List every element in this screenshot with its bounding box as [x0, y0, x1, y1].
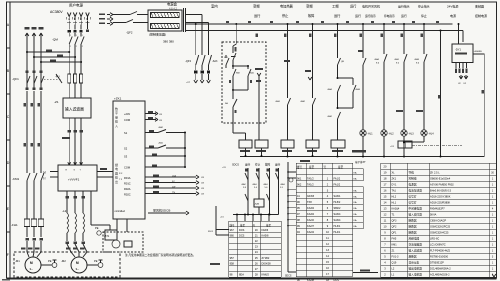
svg-text:停止: 停止 — [255, 162, 261, 166]
svg-text:ZK 2.5 L: ZK 2.5 L — [430, 171, 440, 175]
svg-text:RXM4LB2P7: RXM4LB2P7 — [430, 207, 445, 211]
wire S3 COM common — [145, 132, 186, 169]
svg-text:电机开关风机: 电机开关风机 — [362, 3, 380, 8]
power supply DY1 — [452, 23, 473, 63]
input filter Z1 — [54, 98, 91, 118]
thermal overload FH1 — [11, 184, 44, 241]
svg-text:KA5/8: KA5/8 — [262, 233, 270, 237]
svg-text:24V电源: 24V电源 — [447, 3, 458, 8]
svg-text:2: 2 — [82, 46, 83, 48]
svg-text:-SA3: -SA3 — [212, 60, 218, 63]
svg-text:C65N-C6A/2P: C65N-C6A/2P — [430, 219, 446, 223]
lamp branch HL1 — [358, 23, 366, 130]
svg-text:TN: TN — [172, 192, 175, 194]
field equipment dashed enclosure — [14, 252, 120, 277]
svg-text:SDCS: SDCS — [232, 163, 239, 166]
wire filter to inverter — [62, 118, 83, 165]
svg-text:运行: 运行 — [355, 13, 361, 18]
lamp branch HL2 — [374, 23, 387, 130]
svg-text:2: 2 — [70, 46, 71, 48]
svg-text:AD16-22G/Y380K: AD16-22G/Y380K — [430, 195, 451, 199]
terminal designation cells right of table — [353, 160, 367, 229]
svg-text:M: M — [30, 261, 33, 265]
inverter comm terminals to controller — [97, 168, 113, 177]
svg-text:出: 出 — [115, 179, 118, 184]
svg-text:-KA2: -KA2 — [300, 100, 306, 103]
svg-text:-DY1: -DY1 — [455, 48, 461, 52]
bus wire number labels — [226, 21, 439, 37]
svg-text:号: 号 — [323, 165, 326, 169]
wire control bus L2 — [186, 31, 464, 43]
ground PE motor M1 — [41, 259, 57, 267]
svg-text:输出电抗器: 输出电抗器 — [409, 267, 423, 271]
relay contact box KA6 — [254, 199, 264, 215]
svg-text:QF2: QF2 — [392, 226, 397, 229]
svg-text:FA1/2: FA1/2 — [334, 182, 341, 186]
svg-text:+ZK1: +ZK1 — [114, 97, 122, 101]
selector switch SA3 — [212, 55, 229, 68]
terminal block row top right — [390, 141, 462, 157]
svg-text:PE: PE — [95, 226, 99, 230]
svg-text:967: 967 — [230, 228, 235, 232]
breaker QF1 — [12, 71, 62, 90]
svg-text:SA3/4: SA3/4 — [334, 218, 342, 222]
zone letter A — [7, 23, 11, 48]
contactor coil KM1 — [331, 140, 345, 158]
svg-text:端子排XT: 端子排XT — [355, 160, 366, 164]
svg-text:-M1: -M1 — [15, 259, 20, 263]
svg-text:-KA3: -KA3 — [355, 88, 361, 91]
svg-text:LC1-D09M7C: LC1-D09M7C — [430, 243, 446, 247]
incoming arrows L1 L2 L3 sheet ref — [99, 13, 113, 26]
svg-text:KA2/4: KA2/4 — [307, 230, 315, 234]
svg-text:51K1: 51K1 — [208, 231, 214, 233]
relay coil KA1 — [233, 120, 252, 157]
relay coil KA4 — [306, 140, 319, 157]
svg-text:+XT: +XT — [186, 82, 191, 84]
svg-text:接至: 接至 — [240, 223, 246, 227]
power supply outputs 24V — [455, 63, 468, 86]
indicator lamp HL2 — [381, 130, 394, 158]
svg-text:TA1: TA1 — [392, 190, 397, 193]
svg-text:-QF2: -QF2 — [126, 31, 133, 35]
svg-text:-FU: -FU — [55, 75, 60, 79]
svg-text:热继电器: 热继电器 — [409, 237, 420, 241]
svg-text:停电指示: 停电指示 — [384, 14, 395, 18]
svg-text:HL3/1: HL3/1 — [334, 224, 341, 228]
svg-text:KM1: KM1 — [392, 244, 398, 247]
svg-text:ZY1B2: ZY1B2 — [262, 256, 270, 260]
svg-text:OSMC32N4C25: OSMC32N4C25 — [430, 231, 449, 235]
svg-text:ASY06 FA/B50 P902: ASY06 FA/B50 P902 — [430, 183, 454, 187]
relay coil KA2 — [255, 140, 268, 157]
svg-text:FH5: FH5 — [392, 238, 397, 241]
svg-text:-HL3: -HL3 — [408, 133, 414, 136]
svg-text:R01C: R01C — [124, 182, 131, 186]
svg-text:[-]: [-] — [43, 176, 46, 180]
svg-text:工频: 工频 — [332, 3, 339, 8]
svg-text:DCL480/W009A-2: DCL480/W009A-2 — [430, 267, 451, 271]
svg-text:958: 958 — [230, 261, 235, 265]
svg-text:FC: FC — [172, 181, 175, 183]
wire collector to terminal table — [220, 214, 279, 222]
svg-text:KA2/7: KA2/7 — [307, 224, 315, 228]
svg-text:运行: 运行 — [350, 3, 357, 8]
svg-text:-KA1: -KA1 — [394, 58, 400, 61]
interlock contact branch c — [263, 168, 270, 215]
wire panel feed from bus — [233, 23, 237, 53]
svg-text:+VVVF1: +VVVF1 — [68, 178, 80, 182]
relay output wires R01 R02 — [145, 174, 205, 195]
svg-text:R02A: R02A — [124, 187, 131, 191]
svg-text:DCS: DCS — [239, 233, 245, 237]
relay coil KA3 — [281, 140, 294, 158]
svg-text:KA2/2: KA2/2 — [307, 218, 315, 222]
inverter DC bus terminals — [43, 170, 58, 180]
wire links from QM to risers — [26, 38, 82, 90]
svg-text:入: 入 — [115, 124, 118, 128]
ground PE terminal block — [95, 226, 117, 240]
zone letter B — [7, 69, 11, 94]
svg-text:controlled: controlled — [115, 210, 126, 213]
svg-text:AD16-22S/R380K: AD16-22S/R380K — [430, 201, 451, 205]
svg-text:SDCS: SDCS — [285, 276, 292, 278]
svg-text:控制电源: 控制电源 — [475, 13, 487, 18]
indicator lamp HL3 — [401, 130, 414, 158]
svg-text:-L2: -L2 — [62, 209, 67, 213]
control transformer T1 — [148, 1, 186, 43]
svg-text:S1: S1 — [124, 131, 128, 135]
breaker QF2 — [113, 12, 148, 35]
svg-text:线号: 线号 — [230, 223, 236, 227]
svg-text:DT930E12P: DT930E12P — [430, 261, 444, 265]
contactor branch KM1 with interlocks — [327, 23, 361, 140]
svg-text:KA3/4: KA3/4 — [307, 206, 315, 210]
svg-text:FLT-P04000-4kZJ: FLT-P04000-4kZJ — [430, 249, 451, 253]
svg-text:(控制变压器): (控制变压器) — [149, 32, 166, 37]
ground PE motor M2 — [87, 259, 103, 267]
svg-text:运行指示: 运行指示 — [365, 14, 376, 18]
svg-text:导线: 导线 — [409, 171, 415, 175]
label AC380V — [50, 10, 63, 14]
svg-text:断路器: 断路器 — [409, 231, 417, 235]
svg-text:运行: 运行 — [245, 162, 251, 166]
svg-text:S2: S2 — [124, 147, 128, 151]
zone letter D — [7, 161, 11, 186]
controller ZK1 — [113, 97, 145, 220]
operator panel dashed enclosure — [222, 42, 266, 123]
svg-text:ACL480/A0026-2: ACL480/A0026-2 — [430, 273, 450, 277]
svg-text:-KA4: -KA4 — [374, 58, 380, 61]
svg-text:TA1/2: TA1/2 — [307, 176, 314, 180]
svg-text:HL5/2: HL5/2 — [334, 200, 341, 204]
indicator lamp HL4 — [403, 130, 434, 143]
svg-text:信号灯: 信号灯 — [409, 195, 417, 199]
svg-text:断路器: 断路器 — [409, 219, 417, 223]
svg-text:L1A: L1A — [172, 174, 176, 177]
output reactor L2 — [62, 209, 87, 252]
svg-text:-KA3: -KA3 — [414, 58, 420, 61]
wire L1B relay branch KA4 — [300, 23, 316, 140]
motor M1 — [15, 241, 41, 273]
breaker QM — [52, 25, 89, 49]
svg-text:4.8.4.2: 4.8.4.2 — [169, 7, 177, 11]
svg-text:信号灯: 信号灯 — [409, 201, 417, 205]
svg-text:KA3&4: KA3&4 — [392, 208, 400, 211]
svg-text:接至: 接至 — [266, 223, 272, 227]
svg-text:TA1/2: TA1/2 — [307, 182, 314, 186]
svg-text:交流接触器: 交流接触器 — [409, 243, 423, 247]
svg-text:980: 980 — [230, 233, 235, 237]
svg-text:电加热器: 电加热器 — [280, 3, 294, 8]
svg-text:-HL1: -HL1 — [367, 133, 373, 136]
svg-text:输入滤波器: 输入滤波器 — [409, 249, 423, 253]
svg-text:输入电抗器: 输入电抗器 — [409, 273, 423, 277]
svg-text:断路器: 断路器 — [409, 225, 417, 229]
terminal strip table XT2 — [229, 221, 281, 277]
svg-text:控制线: 控制线 — [409, 177, 417, 181]
svg-text:运行: 运行 — [254, 13, 261, 18]
contactor KM1 — [12, 171, 44, 184]
svg-text:DIOK08: DIOK08 — [262, 261, 272, 265]
svg-text:Q19: Q19 — [392, 262, 397, 265]
svg-text:变频器: 变频器 — [475, 3, 484, 8]
svg-text:熔断器: 熔断器 — [409, 255, 417, 259]
wire inverter output U V W — [65, 191, 110, 230]
pushbutton SB2 start with KA1 holding contact — [229, 65, 255, 91]
wire L11 L12 L13 risers with arrows — [25, 27, 44, 38]
svg-text:RST80-010/000: RST80-010/000 — [430, 255, 449, 259]
svg-text:用户电源: 用户电源 — [69, 3, 83, 8]
note text line — [125, 253, 196, 257]
selector switch SA1 — [225, 90, 237, 120]
svg-text:线号: 线号 — [297, 165, 303, 169]
svg-text:+24V: +24V — [124, 112, 130, 116]
indicator symbol near table — [289, 178, 293, 182]
fuse FU1-FU3 — [55, 72, 83, 98]
interlock contact branch d — [276, 168, 286, 215]
svg-text:运行: 运行 — [334, 13, 341, 18]
wire bottom right arrow — [492, 270, 496, 277]
svg-text:-HL2: -HL2 — [388, 133, 394, 136]
svg-text:-KA2: -KA2 — [158, 126, 164, 129]
svg-text:故障: 故障 — [265, 162, 271, 166]
svg-text:运行: 运行 — [401, 13, 407, 18]
svg-text:+KB09B: +KB09B — [474, 51, 483, 53]
wire bypass leg down to KM1 — [24, 91, 41, 171]
svg-text:变频: 变频 — [253, 3, 260, 8]
indicator lamp HL1 — [360, 130, 373, 158]
wires into terminal table — [285, 162, 378, 278]
svg-text:接至: 接至 — [309, 165, 315, 169]
wire into table XT2 — [208, 206, 229, 265]
zone letter F — [7, 253, 10, 257]
relay contact KA1 branch KA3 — [275, 23, 291, 140]
svg-text:PE: PE — [94, 259, 98, 263]
zone letter E — [7, 207, 11, 232]
svg-text:-M2: -M2 — [61, 259, 66, 263]
svg-text:961: 961 — [297, 176, 302, 180]
svg-text:GF3/3: GF3/3 — [307, 194, 315, 198]
lamp branch HL3 — [394, 23, 407, 130]
svg-text:SA3/4: SA3/4 — [334, 212, 342, 216]
svg-text:接至: 接至 — [338, 165, 344, 169]
svg-text:-BT1: -BT1 — [104, 235, 110, 238]
lamp branch HL4 — [414, 23, 427, 130]
wire 24V COM outputs — [145, 111, 163, 122]
svg-text:-KA1: -KA1 — [275, 100, 281, 103]
svg-text:KM6/2: KM6/2 — [262, 273, 270, 277]
svg-text:5KVA: 5KVA — [430, 213, 437, 217]
relay contact KA2 input S1 — [145, 126, 185, 133]
svg-text:-QM: -QM — [52, 38, 58, 42]
temperature sensor BT1 — [103, 219, 143, 252]
svg-text:COM: COM — [124, 166, 130, 170]
svg-text:中间继电器: 中间继电器 — [409, 207, 423, 211]
svg-text:故障: 故障 — [308, 13, 315, 18]
svg-text:D: D — [7, 161, 10, 165]
svg-text:-Z1: -Z1 — [54, 100, 59, 104]
margin mark bottom left — [2, 279, 10, 281]
svg-text:PE: PE — [48, 259, 52, 263]
wire neutral bus N — [240, 156, 484, 158]
svg-text:M: M — [76, 261, 79, 265]
svg-text:FU1-3: FU1-3 — [392, 256, 400, 259]
svg-text:DY1: DY1 — [392, 184, 397, 187]
svg-text:957: 957 — [230, 256, 235, 260]
svg-text:FA1/2: FA1/2 — [334, 176, 341, 180]
svg-text:R01A: R01A — [124, 176, 131, 180]
svg-text:[+]: [+] — [43, 170, 46, 174]
svg-text:-FH1: -FH1 — [11, 223, 18, 227]
breaker QF3 — [185, 15, 212, 85]
svg-text:DCS: DCS — [239, 228, 245, 232]
wire to fan SDCB — [148, 208, 189, 215]
svg-text:S3: S3 — [124, 155, 128, 159]
svg-text:962: 962 — [297, 182, 302, 186]
svg-text:-KA4: -KA4 — [327, 88, 333, 91]
svg-text:TX8: TX8 — [307, 200, 312, 204]
svg-text:1: 1 — [76, 35, 77, 37]
pushbutton SB1 — [224, 49, 237, 67]
svg-text:电源器: 电源器 — [409, 183, 417, 187]
wire KB09B to right edge — [473, 51, 484, 157]
svg-text:3~: 3~ — [76, 267, 80, 271]
zone letter C — [7, 115, 11, 140]
svg-text:380 380: 380 380 — [163, 40, 174, 44]
svg-text:KA3/4: KA3/4 — [307, 212, 315, 216]
svg-text:室内: 室内 — [211, 3, 218, 8]
svg-text:注:凡使用本图第二次变频器厂家说明书调试说明进行更改。: 注:凡使用本图第二次变频器厂家说明书调试说明进行更改。 — [125, 253, 196, 257]
label SDCS run — [300, 150, 366, 162]
svg-text:SA3/1: SA3/1 — [334, 194, 342, 198]
svg-text:-HL4: -HL4 — [428, 133, 434, 136]
svg-text:QF1: QF1 — [392, 232, 397, 235]
terminal strip table XT1 — [296, 163, 353, 281]
svg-text:FA6/6: FA6/6 — [262, 228, 269, 232]
label SDCS run stop — [222, 162, 281, 169]
svg-text:C: C — [7, 115, 10, 119]
interlock contact branch b — [252, 168, 259, 199]
svg-text:-KA2: -KA2 — [327, 115, 333, 118]
svg-text:1: 1 — [70, 35, 71, 37]
interlock contact branch a — [241, 168, 248, 215]
svg-text:输入滤波器: 输入滤波器 — [65, 106, 84, 111]
svg-text:GB600-E1x020x4: GB600-E1x020x4 — [430, 177, 451, 181]
svg-text:-KA1: -KA1 — [158, 142, 164, 145]
svg-text:R02C: R02C — [124, 193, 131, 197]
svg-text:QF3: QF3 — [392, 220, 397, 223]
svg-text:电源盒: 电源盒 — [167, 1, 178, 6]
svg-text:-KM1: -KM1 — [12, 177, 19, 181]
svg-text:LRD-6C: LRD-6C — [430, 237, 439, 241]
svg-text:停止: 停止 — [421, 13, 427, 18]
bill of materials table — [381, 163, 497, 277]
svg-text:AC380V: AC380V — [50, 10, 63, 14]
svg-text:电源: 电源 — [450, 13, 456, 18]
motor M2 — [61, 248, 87, 274]
svg-text:变频: 变频 — [306, 3, 313, 8]
incoming supply arrows A B C PE — [66, 13, 90, 25]
wire control bus L — [186, 23, 453, 25]
svg-text:-QF1: -QF1 — [12, 77, 19, 81]
svg-text:显示仪表: 显示仪表 — [409, 261, 420, 265]
svg-text:HL1: HL1 — [392, 202, 397, 205]
svg-text:输入变压器: 输入变压器 — [409, 213, 423, 217]
svg-text:停止指示: 停止指示 — [418, 3, 430, 8]
svg-text:运行: 运行 — [275, 162, 281, 166]
svg-text:电流互感器: 电流互感器 — [409, 189, 423, 193]
svg-text:停止: 停止 — [282, 13, 289, 18]
svg-text:HL4/1: HL4/1 — [334, 230, 341, 234]
svg-text:ZK1: ZK1 — [392, 178, 397, 181]
svg-text:运行指示: 运行指示 — [398, 3, 410, 8]
svg-text:COM: COM — [124, 118, 130, 122]
svg-text:HL2: HL2 — [392, 196, 397, 199]
inverter VVVF1 — [58, 162, 97, 191]
svg-text:BHx0.66 600/5 0.5: BHx0.66 600/5 0.5 — [430, 189, 452, 193]
svg-text:3~: 3~ — [30, 267, 34, 271]
relay contact KA1 input S2 — [145, 142, 185, 149]
svg-text:OSMC32N2PC25: OSMC32N2PC25 — [430, 225, 451, 229]
svg-text:2: 2 — [76, 46, 77, 48]
column header labels — [211, 3, 487, 17]
svg-text:SB2/2: SB2/2 — [334, 206, 342, 210]
label user power supply — [69, 3, 83, 8]
svg-text:-QF3: -QF3 — [185, 59, 191, 63]
svg-text:至风机SDCB: 至风机SDCB — [153, 208, 170, 213]
svg-text:1: 1 — [82, 35, 83, 37]
wire bus2 feed down — [438, 30, 442, 158]
wire L1A from controller — [255, 68, 263, 140]
svg-text:C: C — [80, 18, 82, 21]
svg-text:8DA: 8DA — [239, 273, 244, 277]
